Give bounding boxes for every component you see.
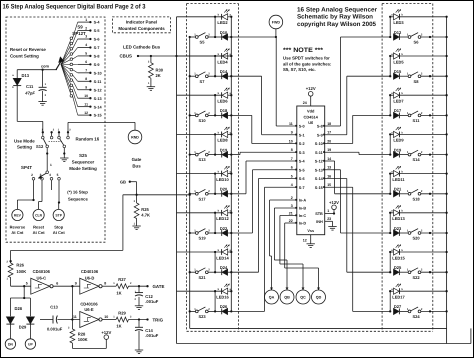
switch S10: [195, 114, 198, 117]
wire U6 S-9 to right row: [325, 134, 347, 136]
LED LED2: [177, 16, 222, 18]
svg-text:GB: GB: [120, 180, 126, 185]
svg-text:CBUS: CBUS: [120, 54, 133, 59]
wire U6 S-4 to left row: [246, 160, 297, 162]
svg-text:16 Step Analog Sequencer Digit: 16 Step Analog Sequencer Digital Board P…: [3, 4, 146, 11]
svg-text:S10: S10: [198, 118, 206, 123]
svg-text:FWD: FWD: [272, 21, 281, 25]
wire cell vertical LED3: [389, 17, 391, 37]
svg-text:5: 5: [57, 173, 59, 177]
svg-text:INH: INH: [316, 220, 323, 224]
svg-text:7: 7: [85, 69, 87, 73]
svg-text:DN: DN: [8, 343, 13, 347]
svg-text:2: 2: [31, 173, 33, 177]
connector QD: [312, 290, 326, 304]
svg-text:S6: S6: [414, 40, 420, 45]
svg-text:D13: D13: [22, 73, 30, 78]
wire U6-D out to R27: [102, 285, 116, 287]
svg-text:Count Setting: Count Setting: [10, 54, 39, 59]
svg-text:LED12: LED12: [216, 216, 229, 221]
wire row to U6 pin S-7: [231, 310, 264, 312]
svg-text:S-7: S-7: [299, 186, 305, 190]
wire U6-C out to U6-D in: [53, 285, 80, 287]
svg-text:10: 10: [289, 139, 293, 143]
wire bus led cathodes right: [446, 17, 448, 344]
svg-text:S21: S21: [198, 275, 206, 280]
svg-text:13: 13: [327, 166, 331, 170]
svg-text:Use SPDT switches for: Use SPDT switches for: [283, 56, 330, 61]
wire gate bus return to R26: [122, 195, 124, 251]
wire U6 In-A to QA: [270, 199, 297, 201]
indicator panel dashed box left column: [187, 3, 239, 5]
svg-text:GATE: GATE: [153, 284, 165, 289]
svg-text:S-8: S-8: [317, 125, 323, 129]
indicator panel dashed box bottom: [187, 330, 433, 332]
wire cell vertical LED8: [214, 134, 216, 154]
svg-text:1K: 1K: [116, 324, 121, 329]
svg-text:S-15: S-15: [315, 186, 323, 190]
wire cell vertical LED12: [214, 213, 216, 233]
ground for R25: [132, 225, 140, 227]
wire cell vertical LED13: [389, 213, 391, 233]
wire U6 In-B to QB: [274, 207, 296, 209]
svg-text:11: 11: [73, 315, 77, 319]
diode D13: [16, 70, 18, 78]
svg-text:LED3: LED3: [393, 20, 404, 25]
wire cell vertical LED9: [389, 134, 391, 154]
connector STP stop at count: [53, 209, 64, 220]
wire FWD to row: [275, 29, 277, 38]
svg-text:S-4: S-4: [94, 21, 101, 25]
wire U6 S-14 to right row: [325, 178, 347, 180]
LED LED16: [177, 290, 222, 292]
LED LED4: [177, 55, 222, 57]
LED LED8: [177, 133, 222, 135]
switch S13: [195, 153, 198, 156]
svg-text:S-13: S-13: [315, 168, 323, 172]
S9 contact 6 wire to S-9: [61, 63, 71, 65]
LED LED14: [177, 251, 222, 253]
node TRIG: [146, 318, 148, 320]
svg-text:8: 8: [291, 148, 293, 152]
svg-text:LED17: LED17: [392, 295, 405, 300]
LED LED5: [390, 55, 393, 57]
LED LED7: [390, 94, 393, 96]
svg-text:QB: QB: [284, 296, 290, 300]
svg-text:LED8: LED8: [217, 138, 228, 143]
svg-text:R29: R29: [118, 310, 126, 315]
svg-text:In-D: In-D: [299, 222, 307, 226]
ground for C12: [135, 305, 143, 307]
switch S6: [408, 36, 411, 39]
svg-text:S-3: S-3: [299, 151, 305, 155]
svg-text:100K: 100K: [16, 269, 26, 274]
svg-text:LED15: LED15: [392, 255, 405, 260]
wire cell vertical LED17: [389, 291, 391, 311]
svg-text:LED7: LED7: [393, 99, 404, 104]
connector CLR reset at count: [33, 209, 44, 220]
svg-text:Vss: Vss: [307, 229, 314, 233]
connector REV reverse at count: [12, 209, 23, 220]
svg-text:2K: 2K: [156, 73, 161, 78]
svg-text:LED16: LED16: [216, 295, 229, 300]
svg-text:U6-D: U6-D: [85, 275, 95, 280]
wire cell vertical LED10: [214, 174, 216, 194]
svg-text:Schematic by Ray Wilson: Schematic by Ray Wilson: [297, 14, 373, 21]
svg-text:S5, S7, S10, etc.: S5, S7, S10, etc.: [283, 67, 316, 72]
resistor R26 100K: [10, 250, 12, 263]
wire U6 S-10 to right row: [325, 143, 353, 145]
svg-text:4: 4: [49, 173, 51, 177]
switch S20: [408, 232, 411, 235]
wire U6 S-12 to right row: [325, 160, 335, 162]
wire to CLR: [41, 180, 43, 201]
wire bus gate switches left: [189, 37, 191, 328]
power +12V for R28: [71, 343, 73, 348]
LED LED9: [390, 133, 393, 135]
switch S23: [195, 310, 198, 313]
svg-text:LED2: LED2: [217, 20, 228, 25]
svg-text:At Cnt: At Cnt: [33, 230, 46, 235]
S9 contact 8 wire to S-11: [61, 65, 71, 75]
svg-text:S-0: S-0: [299, 125, 305, 129]
wire nc: [51, 180, 53, 190]
wire com: [17, 69, 57, 71]
svg-text:6: 6: [291, 166, 293, 170]
svg-text:S13: S13: [198, 157, 206, 162]
wire row to U6 pin S-4: [231, 193, 246, 195]
svg-text:RND: RND: [131, 136, 139, 140]
svg-text:14: 14: [327, 157, 331, 161]
svg-text:LED4: LED4: [217, 59, 228, 64]
svg-text:STP: STP: [55, 214, 62, 218]
svg-text:D25: D25: [394, 265, 402, 270]
LED LED10: [177, 173, 222, 175]
svg-text:At Cnt: At Cnt: [11, 230, 24, 235]
svg-text:S-9: S-9: [317, 133, 323, 137]
svg-text:R26: R26: [16, 263, 24, 268]
wire U6 S-0 to left row: [276, 125, 297, 127]
switch S19: [195, 232, 198, 235]
svg-text:S-15: S-15: [94, 114, 102, 118]
wire row to U6 pin S-14: [347, 271, 390, 273]
wire U6 S-13 to right row: [325, 169, 341, 171]
wire random16 to RND: [67, 122, 69, 136]
S9 contact 2 wire to S-5: [61, 43, 71, 64]
wire U6-E out to R29: [102, 319, 116, 321]
svg-text:9: 9: [85, 85, 87, 89]
switch S11: [408, 114, 411, 117]
svg-text:Gate: Gate: [132, 157, 142, 162]
svg-text:LED11: LED11: [392, 177, 405, 182]
svg-text:10: 10: [84, 94, 88, 98]
svg-text:QC: QC: [300, 296, 306, 300]
S9 contact 11 wire to S-14: [61, 65, 71, 91]
wire U6 In-D to QD: [285, 222, 297, 224]
svg-text:15: 15: [327, 183, 331, 187]
ground for INH: [328, 226, 336, 228]
svg-text:+12V: +12V: [101, 330, 111, 335]
svg-text:S-7: S-7: [94, 46, 100, 50]
wire bus led anodes left: [230, 17, 232, 312]
wire row to U6 pin S-2: [231, 114, 252, 116]
svg-text:Reverse: Reverse: [10, 225, 26, 230]
svg-text:R30: R30: [156, 68, 164, 73]
wire to STP: [58, 180, 60, 202]
wire U6 S-11 to right row: [325, 151, 359, 153]
svg-text:STB: STB: [315, 212, 323, 216]
svg-text:In-C: In-C: [299, 214, 307, 218]
wire U6 In-C to QC: [280, 215, 297, 217]
svg-text:7: 7: [291, 157, 293, 161]
svg-text:S-5: S-5: [94, 29, 100, 33]
svg-text:10: 10: [104, 315, 108, 319]
svg-text:copyright Ray Wilson 2005: copyright Ray Wilson 2005: [297, 21, 377, 28]
wire U6 S-6 to left row: [259, 178, 297, 180]
svg-text:5: 5: [291, 174, 293, 178]
svg-text:REV: REV: [14, 214, 22, 218]
svg-text:U6: U6: [308, 120, 314, 125]
svg-text:Setting: Setting: [17, 145, 32, 150]
wire R29 to TRIG: [129, 319, 148, 321]
svg-text:Indicator Panel: Indicator Panel: [126, 19, 157, 24]
svg-text:S-4: S-4: [299, 160, 306, 164]
svg-text:At Cnt: At Cnt: [53, 230, 66, 235]
resistor R30 2K: [150, 56, 152, 63]
svg-text:6: 6: [56, 282, 58, 286]
svg-text:+12V: +12V: [306, 86, 316, 91]
wire row to U6 pin S-1: [231, 75, 261, 77]
indicator panel label box: [112, 17, 170, 33]
svg-text:S-10: S-10: [315, 142, 323, 146]
svg-text:S9: S9: [77, 25, 83, 30]
panel mounted components dashed box left: [6, 17, 105, 242]
wire cell vertical LED7: [389, 95, 391, 115]
wire row to U6 pin S-12: [335, 193, 391, 195]
svg-text:S11: S11: [413, 118, 421, 123]
svg-text:S-11: S-11: [315, 151, 323, 155]
svg-text:C13: C13: [50, 304, 58, 309]
svg-text:4.7K: 4.7K: [141, 213, 150, 218]
svg-text:0.001uF: 0.001uF: [47, 327, 63, 332]
S12 gang dashed link: [49, 141, 63, 143]
svg-text:9: 9: [291, 131, 293, 135]
switch S8: [408, 75, 411, 78]
svg-text:S-10: S-10: [94, 71, 102, 75]
svg-text:CD40106: CD40106: [81, 269, 99, 274]
node GATE: [146, 285, 148, 287]
svg-text:S23: S23: [198, 314, 206, 319]
svg-text:Bus: Bus: [132, 164, 141, 169]
wire U6 S-1 to left row: [262, 134, 297, 136]
LED LED3: [390, 16, 393, 18]
wire S12 pole2 to ground: [63, 148, 65, 158]
svg-text:LED5: LED5: [393, 59, 404, 64]
wire cell vertical LED15: [389, 252, 391, 272]
svg-text:2: 2: [85, 26, 87, 30]
svg-text:Random 16: Random 16: [76, 137, 100, 142]
svg-text:47pF: 47pF: [24, 91, 35, 96]
S9 contact 5 wire to S-8: [61, 59, 71, 64]
wire row to U6 pin S-5: [231, 232, 252, 234]
svg-text:SP4T: SP4T: [21, 165, 32, 170]
connector QC: [296, 290, 310, 304]
svg-text:.001uF: .001uF: [145, 299, 158, 304]
connector QA: [265, 290, 279, 304]
switch S7: [195, 75, 198, 78]
S9 contact 9 wire to S-12: [61, 65, 71, 81]
svg-text:Reset: Reset: [33, 225, 45, 230]
svg-text:21: 21: [289, 211, 293, 215]
LED LED12: [177, 212, 222, 214]
svg-text:U6-E: U6-E: [84, 307, 94, 312]
svg-text:CD40106: CD40106: [80, 301, 98, 306]
svg-text:S-6: S-6: [299, 177, 305, 181]
svg-text:CD4514: CD4514: [304, 115, 319, 120]
svg-text:16 Step Analog Sequencer: 16 Step Analog Sequencer: [297, 6, 378, 13]
wire U6 S-7 to left row: [265, 186, 297, 188]
svg-text:Mode Setting: Mode Setting: [69, 166, 97, 171]
svg-text:S17: S17: [198, 196, 206, 201]
S9 contact 3 wire to S-6: [61, 49, 71, 65]
svg-text:11: 11: [84, 102, 88, 106]
svg-text:1K: 1K: [116, 290, 121, 295]
wire row to U6 pin S-0: [231, 36, 276, 38]
svg-text:+12V: +12V: [329, 200, 339, 205]
svg-text:4: 4: [85, 43, 87, 47]
svg-text:19: 19: [327, 148, 331, 152]
svg-text:Sequencer: Sequencer: [72, 160, 95, 165]
LED LED6: [177, 94, 222, 96]
svg-text:S7: S7: [200, 79, 206, 84]
svg-text:LED6: LED6: [217, 99, 228, 104]
svg-text:S-13: S-13: [94, 97, 102, 101]
wire row to U6 pin S-9: [347, 75, 390, 77]
wire U6 S-3 to left row: [240, 151, 297, 153]
svg-text:S25: S25: [79, 153, 87, 158]
switch S21: [195, 271, 198, 274]
svg-text:LED Cathode Bus: LED Cathode Bus: [123, 45, 161, 50]
resistor R25 4.7K: [134, 203, 139, 219]
svg-text:Sequence: Sequence: [68, 196, 88, 201]
wire row to U6 pin S-13: [341, 232, 391, 234]
wire cell vertical LED2: [214, 17, 216, 37]
svg-text:S-11: S-11: [94, 80, 102, 84]
svg-text:R28: R28: [78, 331, 86, 336]
wire feedback: [71, 286, 73, 319]
S9 contact 10 wire to S-13: [61, 65, 71, 86]
svg-text:1: 1: [327, 209, 329, 213]
svg-text:24: 24: [303, 101, 307, 105]
svg-text:(*) 16 Step: (*) 16 Step: [67, 190, 88, 195]
svg-text:D23: D23: [394, 226, 402, 231]
svg-text:5: 5: [85, 52, 87, 56]
wire row to U6 pin S-11: [359, 154, 390, 156]
svg-text:CD40106: CD40106: [33, 269, 51, 274]
wire row to U6 pin S-6: [231, 271, 258, 273]
connector DN: [5, 339, 15, 349]
svg-text:*** NOTE ***: *** NOTE ***: [283, 47, 324, 54]
wire U6 S-2 to left row: [252, 143, 297, 145]
svg-text:S-12: S-12: [315, 160, 323, 164]
wire row to U6 pin S-15: [353, 310, 391, 312]
S9 contact 12 wire to S-15: [61, 65, 71, 96]
wire cell vertical LED14: [214, 252, 216, 272]
svg-text:D19: D19: [394, 147, 402, 152]
svg-text:Mounted Components: Mounted Components: [118, 26, 165, 31]
wire U6 S-15 to right row: [325, 186, 353, 188]
wire row to U6 pin S-3: [231, 154, 240, 156]
svg-text:8: 8: [104, 282, 106, 286]
wire row to U6 pin S-8: [341, 36, 391, 38]
ground for C11: [38, 101, 46, 103]
svg-text:S-14: S-14: [94, 105, 103, 109]
svg-text:R27: R27: [118, 277, 126, 282]
svg-text:S-6: S-6: [94, 38, 100, 42]
diode D28: [23, 286, 25, 298]
svg-text:3: 3: [40, 173, 42, 177]
wire to REV: [33, 180, 35, 200]
svg-text:CLR: CLR: [35, 214, 43, 218]
svg-text:8: 8: [85, 77, 87, 81]
connector QB: [280, 290, 294, 304]
svg-text:S24: S24: [412, 314, 420, 319]
svg-text:2: 2: [291, 196, 293, 200]
svg-text:22: 22: [289, 219, 293, 223]
wire CBUS: [137, 55, 139, 57]
connector UP: [25, 339, 35, 349]
wire cell vertical LED4: [214, 56, 216, 76]
capacitor C12 .001uF: [138, 286, 140, 293]
wire cell vertical LED16: [214, 291, 216, 311]
switch S18: [408, 192, 411, 195]
svg-text:LED9: LED9: [393, 138, 404, 143]
svg-text:D29: D29: [19, 324, 27, 329]
svg-text:In-B: In-B: [299, 207, 307, 211]
wire row to U6 pin S-10: [353, 114, 391, 116]
svg-text:R25: R25: [141, 207, 149, 212]
svg-text:Use Mode: Use Mode: [14, 138, 35, 143]
svg-text:QA: QA: [269, 296, 275, 300]
svg-text:S-2: S-2: [299, 142, 305, 146]
wire cell vertical LED6: [214, 95, 216, 115]
S9 contact 4 wire to S-7: [61, 54, 71, 65]
switch S22: [408, 271, 411, 274]
ground for R30: [147, 86, 155, 88]
svg-text:D15: D15: [394, 69, 402, 74]
svg-text:S20: S20: [412, 236, 420, 241]
svg-text:Vdd: Vdd: [307, 109, 315, 114]
svg-text:S18: S18: [412, 196, 420, 201]
svg-text:4: 4: [291, 183, 293, 187]
svg-text:6: 6: [85, 60, 87, 64]
capacitor C14 .001uF: [138, 320, 140, 328]
svg-text:S12: S12: [36, 144, 44, 149]
svg-text:Reset or Reverse: Reset or Reverse: [10, 47, 46, 52]
svg-text:S-12: S-12: [94, 88, 102, 92]
svg-text:16: 16: [327, 174, 331, 178]
svg-text:S-14: S-14: [315, 177, 324, 181]
svg-text:23: 23: [327, 217, 331, 221]
svg-text:17: 17: [327, 131, 331, 135]
wire D13 to S12: [17, 120, 43, 122]
svg-text:1: 1: [85, 18, 87, 22]
svg-text:12: 12: [303, 239, 307, 243]
svg-text:com: com: [41, 64, 50, 69]
svg-text:U6-C: U6-C: [37, 275, 47, 280]
wire bottom bus 2: [177, 343, 471, 345]
LED LED15: [390, 251, 393, 253]
